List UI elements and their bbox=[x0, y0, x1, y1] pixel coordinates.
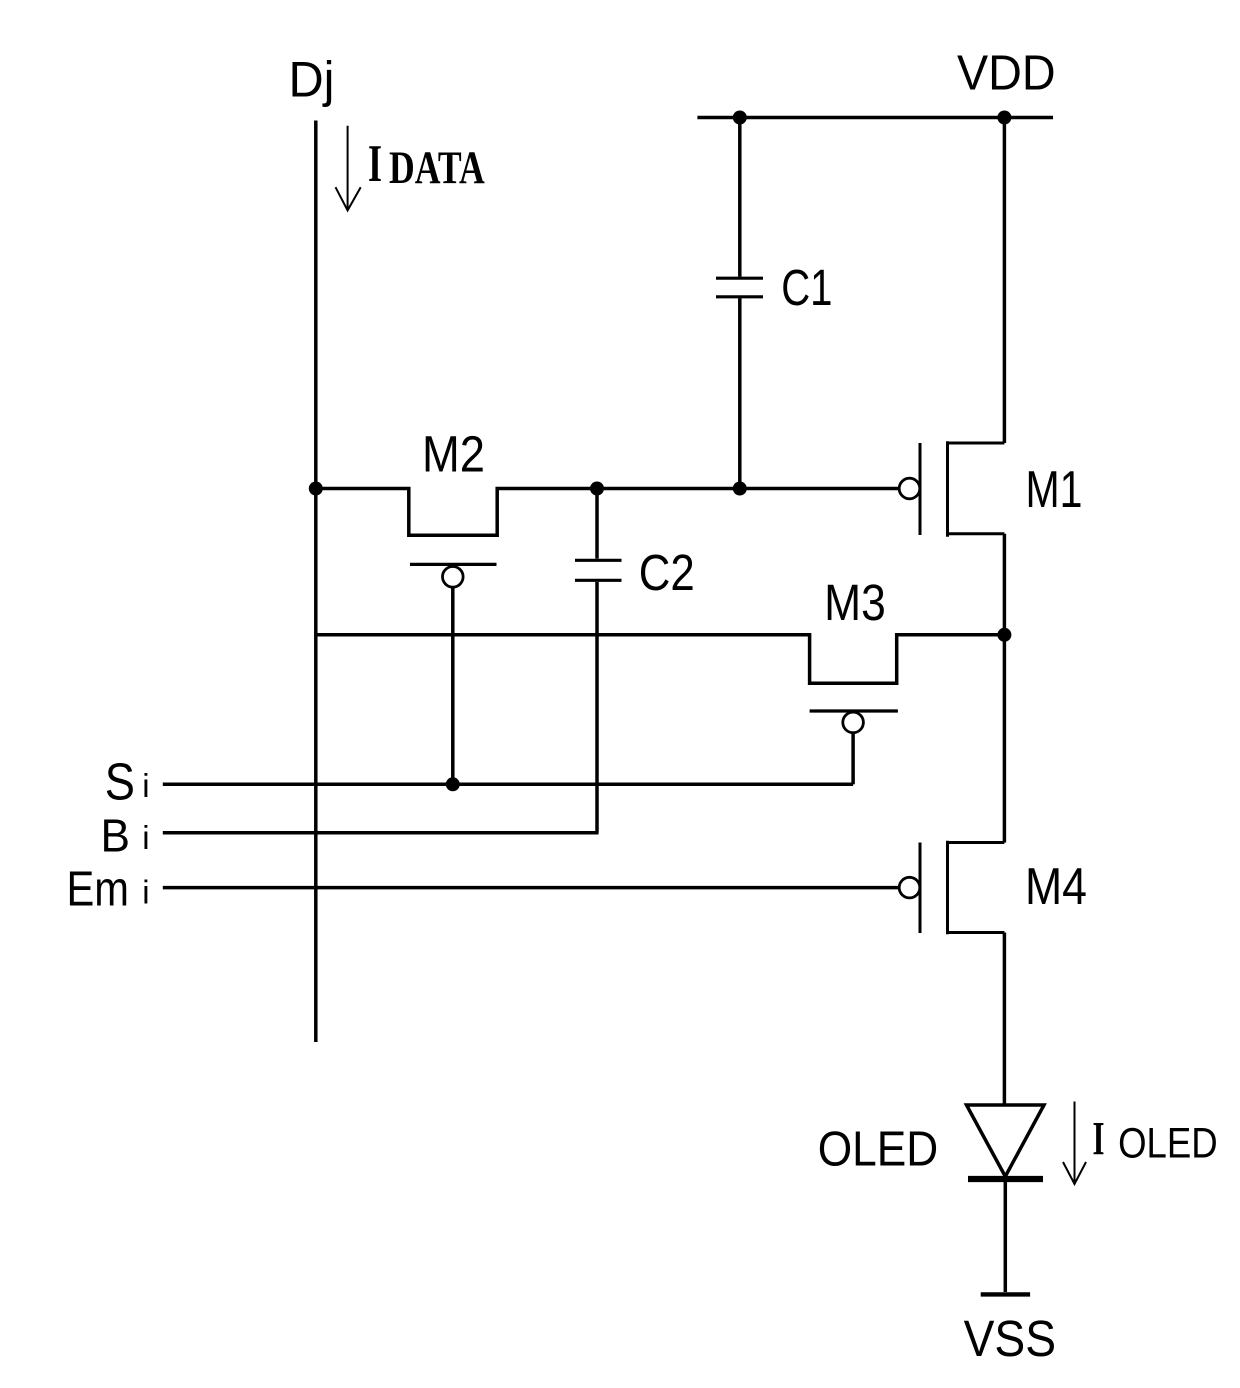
svg-text:Em: Em bbox=[67, 863, 130, 917]
svg-text:OLED: OLED bbox=[818, 1123, 939, 1177]
svg-text:C1: C1 bbox=[781, 259, 832, 316]
svg-text:VDD: VDD bbox=[957, 46, 1056, 100]
svg-text:B: B bbox=[101, 809, 131, 861]
svg-text:i: i bbox=[142, 874, 149, 911]
svg-text:i: i bbox=[142, 819, 149, 856]
svg-text:Dj: Dj bbox=[289, 52, 335, 108]
svg-text:OLED: OLED bbox=[1118, 1119, 1218, 1167]
svg-text:DATA: DATA bbox=[389, 142, 485, 194]
svg-text:M1: M1 bbox=[1026, 461, 1083, 519]
svg-text:VSS: VSS bbox=[964, 1310, 1057, 1367]
svg-text:I: I bbox=[368, 135, 382, 193]
svg-text:I: I bbox=[1093, 1112, 1105, 1165]
svg-text:M2: M2 bbox=[422, 426, 485, 483]
svg-text:i: i bbox=[142, 767, 149, 804]
svg-text:C2: C2 bbox=[639, 544, 695, 601]
svg-text:S: S bbox=[105, 753, 135, 811]
svg-text:M3: M3 bbox=[824, 574, 886, 631]
svg-text:M4: M4 bbox=[1025, 858, 1087, 916]
